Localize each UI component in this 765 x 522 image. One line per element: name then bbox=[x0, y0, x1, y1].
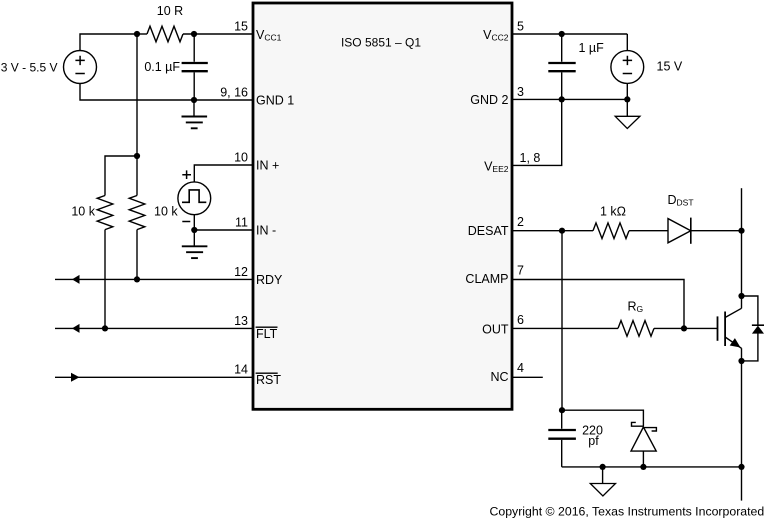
resistor R3 10k right bbox=[129, 196, 145, 230]
IC U1 ISO5851-Q1 body bbox=[253, 3, 512, 409]
wire OUT pin 6 bbox=[512, 327, 618, 329]
node gnd bottom junction bbox=[600, 464, 606, 470]
svg-text:7: 7 bbox=[517, 264, 524, 278]
wire C3 top to zener bbox=[562, 410, 643, 426]
arrow RDY left bbox=[72, 275, 80, 284]
svg-text:12: 12 bbox=[234, 265, 248, 279]
svg-text:RST: RST bbox=[256, 373, 281, 387]
arrow RST right bbox=[71, 373, 80, 382]
svg-text:3 V - 5.5 V: 3 V - 5.5 V bbox=[1, 60, 58, 74]
svg-text:14: 14 bbox=[234, 362, 248, 376]
svg-text:10 k: 10 k bbox=[154, 204, 178, 218]
label V2 plus bbox=[182, 170, 191, 179]
node FLT junction bbox=[102, 325, 108, 331]
wire IN- pin 11 bbox=[194, 229, 253, 231]
svg-text:ISO 5851 – Q1: ISO 5851 – Q1 bbox=[341, 36, 421, 50]
wire emitter rail bbox=[741, 348, 743, 467]
label V2 minus bbox=[182, 221, 190, 223]
resistor R1 10R bbox=[147, 26, 183, 42]
voltage source V1 3V-5.5V bbox=[64, 51, 97, 84]
wire RG to gate bbox=[654, 327, 717, 329]
wire DESAT vertical to C3 bbox=[561, 231, 563, 411]
resistor R5 RG bbox=[618, 321, 654, 337]
svg-text:10 k: 10 k bbox=[71, 204, 95, 218]
svg-text:9, 16: 9, 16 bbox=[220, 85, 248, 99]
svg-text:OUT: OUT bbox=[482, 322, 509, 336]
svg-text:DDST: DDST bbox=[668, 193, 694, 208]
node DESAT-rail junction bbox=[738, 228, 744, 234]
svg-text:DESAT: DESAT bbox=[468, 224, 509, 238]
svg-text:10 R: 10 R bbox=[157, 4, 183, 18]
transistor Q1 IGBT bbox=[718, 308, 742, 348]
wire V2 bottom to IN- bbox=[193, 215, 195, 230]
svg-text:RDY: RDY bbox=[256, 273, 283, 287]
node C2-GND2 junction bbox=[559, 96, 565, 102]
wire CLAMP pin 7 bbox=[512, 280, 684, 329]
ground chassis GND4 bbox=[615, 99, 640, 128]
wire node A to R1 bbox=[137, 33, 147, 35]
capacitor C1 0.1uF bbox=[182, 34, 208, 100]
ground GND3 symbol bbox=[182, 230, 208, 258]
diode D2 freewheel bbox=[742, 296, 765, 361]
wire R3 bottom to RDY node bbox=[136, 230, 138, 280]
wire R1 to pin 15 bbox=[183, 33, 253, 35]
svg-text:4: 4 bbox=[517, 361, 524, 375]
diode D3 zener bbox=[631, 422, 656, 467]
svg-text:IN -: IN - bbox=[256, 224, 276, 238]
node C1-GND1 junction bbox=[191, 97, 197, 103]
svg-text:0.1 µF: 0.1 µF bbox=[144, 60, 180, 74]
wire RST pin 14 bbox=[55, 376, 253, 378]
wire node A down to node C bbox=[136, 34, 138, 156]
wire rail below bottom bbox=[741, 467, 743, 501]
svg-text:GND 2: GND 2 bbox=[470, 93, 508, 107]
capacitor C3 220pf bbox=[548, 410, 576, 467]
svg-text:15 V: 15 V bbox=[657, 60, 683, 74]
ground chassis GND5 bbox=[590, 467, 615, 496]
node RDY junction bbox=[134, 276, 140, 282]
svg-text:6: 6 bbox=[517, 313, 524, 327]
node rail bottom junction bbox=[738, 464, 744, 470]
svg-text:NC: NC bbox=[490, 370, 508, 384]
node zener bottom junction bbox=[640, 464, 646, 470]
wire NC pin 4 stub bbox=[512, 376, 543, 378]
svg-text:1, 8: 1, 8 bbox=[520, 151, 541, 165]
svg-text:10: 10 bbox=[234, 150, 248, 164]
node collector junction bbox=[738, 293, 744, 299]
wire collector rail top bbox=[741, 188, 743, 308]
svg-text:2: 2 bbox=[517, 215, 524, 229]
wire VEE2 pin 1,8 bbox=[512, 99, 562, 165]
node C junction bbox=[134, 153, 140, 159]
node C3 top junction bbox=[559, 407, 565, 413]
svg-text:13: 13 bbox=[234, 314, 248, 328]
wire V2 top to pin 10 bbox=[194, 165, 253, 182]
node DESAT junction bbox=[559, 228, 565, 234]
svg-text:1 µF: 1 µF bbox=[579, 41, 605, 55]
wire GND2 pin 3 bbox=[512, 98, 627, 100]
svg-text:GND 1: GND 1 bbox=[256, 94, 294, 108]
svg-text:15: 15 bbox=[234, 19, 248, 33]
node B junction bbox=[191, 31, 197, 37]
voltage source V3 15V bbox=[611, 34, 644, 99]
node A junction bbox=[134, 31, 140, 37]
ground GND1 symbol bbox=[182, 100, 208, 128]
wire D1 to collector rail bbox=[691, 230, 742, 232]
node CLAMP-OUT junction bbox=[681, 325, 687, 331]
resistor R4 1k bbox=[593, 223, 629, 239]
wire VCC2 pin 5 bbox=[512, 33, 627, 35]
node VCC2-C2 junction bbox=[559, 31, 565, 37]
arrow Q1 emitter bbox=[730, 338, 741, 347]
wire V1 top to node A bbox=[80, 34, 137, 51]
svg-text:5: 5 bbox=[517, 19, 524, 33]
resistor R2 10k left bbox=[97, 196, 113, 230]
svg-text:Copyright © 2016, Texas Instru: Copyright © 2016, Texas Instruments Inco… bbox=[490, 504, 765, 518]
wire bottom rail bbox=[562, 466, 742, 468]
svg-text:IN +: IN + bbox=[256, 159, 279, 173]
wire V1 bottom / GND1 rail bbox=[80, 84, 253, 101]
wire R4 to D1 bbox=[629, 230, 668, 232]
diode D1 DDST bbox=[668, 218, 691, 244]
capacitor C2 1uF bbox=[548, 34, 575, 99]
arrow FLT left bbox=[72, 324, 80, 333]
node V3-GND2 junction bbox=[624, 96, 630, 102]
wire node C to R2 top bbox=[105, 156, 137, 196]
svg-text:FLT: FLT bbox=[256, 327, 278, 341]
pulse source V2 bbox=[178, 182, 211, 215]
node V2-IN- junction bbox=[191, 227, 197, 233]
svg-text:11: 11 bbox=[235, 215, 248, 229]
wire R2 bottom to FLT node bbox=[104, 230, 106, 329]
wire RDY pin 12 bbox=[55, 278, 253, 280]
svg-text:CLAMP: CLAMP bbox=[465, 272, 508, 286]
wire FLT pin 13 bbox=[55, 327, 253, 329]
wire node C to R3 top bbox=[136, 156, 138, 196]
svg-text:RG: RG bbox=[628, 300, 644, 315]
node emitter junction bbox=[738, 358, 744, 364]
svg-text:3: 3 bbox=[517, 85, 524, 99]
svg-text:pf: pf bbox=[588, 434, 599, 448]
svg-text:1 kΩ: 1 kΩ bbox=[600, 205, 626, 219]
wire DESAT pin 2 bbox=[512, 230, 593, 232]
